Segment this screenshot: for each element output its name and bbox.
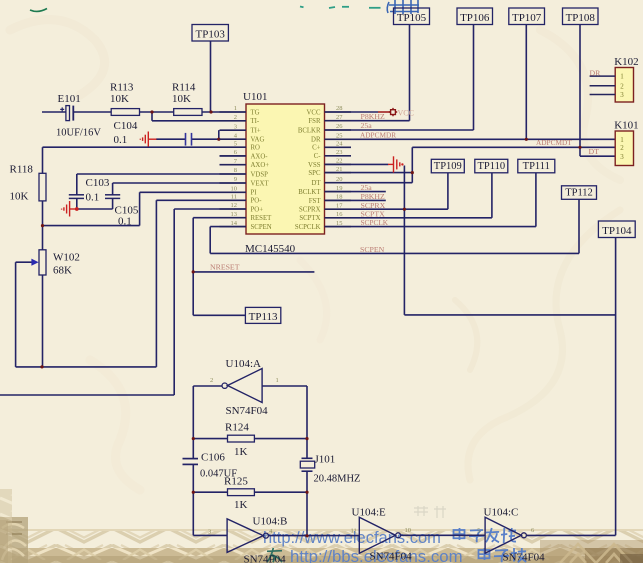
svg-text:3: 3 — [208, 529, 211, 536]
svg-text:U101: U101 — [243, 91, 267, 103]
svg-text:11: 11 — [351, 528, 357, 535]
svg-text:DT: DT — [311, 180, 321, 187]
svg-text:SCPEN: SCPEN — [360, 245, 385, 254]
svg-text:ADPCMDR: ADPCMDR — [360, 131, 396, 140]
svg-text:TG: TG — [251, 109, 260, 116]
svg-text:W102: W102 — [53, 252, 80, 264]
svg-text:0.1: 0.1 — [118, 216, 132, 228]
svg-text:TI-: TI- — [251, 118, 260, 125]
svg-text:28: 28 — [336, 105, 343, 112]
svg-text:R113: R113 — [110, 82, 134, 94]
svg-text:VAG: VAG — [251, 137, 265, 144]
svg-text:DR: DR — [311, 137, 321, 144]
svg-text:2: 2 — [620, 82, 624, 90]
svg-text:3: 3 — [620, 91, 624, 99]
svg-text:17: 17 — [336, 202, 343, 209]
svg-text:R125: R125 — [224, 476, 248, 488]
svg-text:C104: C104 — [114, 120, 138, 132]
svg-text:DT: DT — [589, 147, 600, 156]
svg-text:TP104: TP104 — [602, 225, 632, 237]
svg-text:TP110: TP110 — [477, 161, 505, 172]
svg-text:TI+: TI+ — [251, 128, 261, 135]
svg-text:AXO+: AXO+ — [251, 162, 270, 169]
svg-text:2: 2 — [234, 114, 237, 121]
svg-text:C103: C103 — [86, 177, 110, 189]
svg-text:10UF/16V: 10UF/16V — [56, 128, 101, 139]
svg-text:SCPRX: SCPRX — [299, 207, 321, 214]
svg-text:6: 6 — [234, 149, 238, 156]
svg-text:SCPTX: SCPTX — [361, 209, 386, 218]
svg-text:RESET: RESET — [251, 215, 273, 222]
svg-text:25a: 25a — [361, 121, 373, 130]
svg-text:TP111: TP111 — [523, 161, 550, 172]
svg-text:20.48MHZ: 20.48MHZ — [314, 474, 361, 485]
svg-text:23: 23 — [336, 149, 343, 156]
svg-text:14: 14 — [231, 220, 238, 227]
svg-text:VEXT: VEXT — [251, 180, 270, 187]
svg-text:13: 13 — [231, 211, 238, 218]
svg-text:VCC: VCC — [398, 108, 414, 117]
svg-text:RO: RO — [251, 145, 261, 152]
svg-text:1: 1 — [620, 136, 624, 144]
svg-text:BCLKT: BCLKT — [298, 189, 321, 196]
svg-text:P8KHZ: P8KHZ — [361, 112, 385, 121]
svg-text:19: 19 — [336, 185, 343, 192]
svg-text:VDSP: VDSP — [251, 171, 269, 178]
svg-text:MC145540: MC145540 — [245, 243, 296, 255]
svg-text:2: 2 — [210, 377, 213, 384]
svg-text:10K: 10K — [172, 93, 191, 105]
svg-text:0.1: 0.1 — [86, 192, 100, 204]
svg-text:SCPCLK: SCPCLK — [295, 224, 321, 231]
svg-text:68K: 68K — [53, 265, 72, 277]
svg-text:TP108: TP108 — [566, 12, 596, 24]
svg-text:FST: FST — [309, 198, 322, 205]
svg-text:TP107: TP107 — [512, 12, 542, 24]
svg-text:TP109: TP109 — [434, 161, 462, 172]
svg-text:10K: 10K — [10, 191, 29, 203]
svg-text:C+: C+ — [312, 145, 321, 152]
svg-text:5: 5 — [234, 140, 237, 147]
svg-text:10: 10 — [231, 186, 238, 193]
svg-text:BCLKR: BCLKR — [298, 127, 321, 134]
svg-text:11: 11 — [231, 194, 237, 201]
svg-text:4: 4 — [234, 132, 238, 139]
svg-text:U104:B: U104:B — [253, 516, 288, 528]
svg-text:SN74F04: SN74F04 — [370, 551, 413, 563]
svg-text:FSR: FSR — [308, 118, 321, 125]
svg-text:PO+: PO+ — [251, 206, 264, 213]
svg-text:27: 27 — [336, 114, 343, 121]
svg-text:R114: R114 — [172, 82, 196, 94]
svg-text:J101: J101 — [315, 454, 336, 466]
svg-text:8: 8 — [234, 167, 237, 174]
svg-text:U104:C: U104:C — [484, 507, 519, 519]
svg-text:2: 2 — [620, 144, 624, 152]
svg-text:3: 3 — [234, 123, 237, 130]
svg-text:VSS: VSS — [308, 162, 321, 169]
svg-text:C106: C106 — [201, 452, 225, 464]
svg-text:1: 1 — [620, 73, 624, 81]
svg-text:SCPEN: SCPEN — [251, 224, 272, 231]
svg-text:PO-: PO- — [251, 198, 263, 205]
svg-text:DR: DR — [590, 68, 602, 77]
svg-text:K102: K102 — [614, 56, 638, 68]
svg-text:TP106: TP106 — [460, 12, 490, 24]
svg-text:TP112: TP112 — [565, 188, 593, 199]
svg-text:E101: E101 — [58, 93, 81, 105]
svg-text:SCPTX: SCPTX — [299, 215, 320, 222]
svg-text:25: 25 — [336, 133, 343, 140]
svg-text:1: 1 — [234, 105, 237, 112]
svg-text:U104:A: U104:A — [226, 358, 262, 370]
svg-text:16: 16 — [336, 211, 343, 218]
svg-text:1K: 1K — [234, 446, 248, 458]
svg-text:SN74F04: SN74F04 — [503, 552, 546, 563]
svg-text:10K: 10K — [110, 93, 129, 105]
svg-text:C-: C- — [314, 153, 322, 160]
svg-text:21: 21 — [336, 166, 343, 173]
svg-text:K101: K101 — [614, 120, 638, 132]
svg-text:22: 22 — [336, 158, 343, 165]
svg-text:VCC: VCC — [307, 109, 321, 116]
svg-text:R118: R118 — [10, 164, 34, 176]
svg-text:U104:E: U104:E — [352, 507, 387, 519]
svg-text:TP113: TP113 — [249, 311, 278, 323]
svg-text:25a: 25a — [361, 183, 373, 192]
svg-text:1: 1 — [276, 377, 279, 384]
svg-text:20: 20 — [336, 176, 343, 183]
svg-text:3: 3 — [620, 153, 624, 161]
svg-text:0.1: 0.1 — [114, 134, 128, 146]
svg-text:18: 18 — [336, 194, 343, 201]
svg-text:12: 12 — [231, 202, 238, 209]
svg-text:26: 26 — [336, 123, 343, 130]
svg-text:7: 7 — [234, 158, 238, 165]
svg-text:24: 24 — [336, 141, 343, 148]
svg-text:SN74F04: SN74F04 — [244, 554, 287, 563]
svg-text:SPC: SPC — [308, 170, 321, 177]
svg-text:AXO-: AXO- — [251, 153, 269, 160]
svg-text:TP103: TP103 — [196, 28, 226, 40]
svg-text:5: 5 — [477, 528, 480, 535]
svg-text:ADPCMDT: ADPCMDT — [536, 138, 572, 147]
svg-text:NRESET: NRESET — [210, 263, 240, 272]
svg-text:15: 15 — [336, 220, 343, 227]
svg-text:10: 10 — [405, 527, 412, 534]
svg-text:PI: PI — [251, 190, 258, 197]
svg-text:R124: R124 — [225, 422, 249, 434]
svg-text:9: 9 — [234, 176, 237, 183]
svg-text:TP105: TP105 — [397, 12, 427, 24]
svg-text:SCPCLK: SCPCLK — [361, 218, 389, 227]
svg-text:SN74F04: SN74F04 — [226, 405, 269, 417]
svg-text:1K: 1K — [234, 499, 248, 511]
